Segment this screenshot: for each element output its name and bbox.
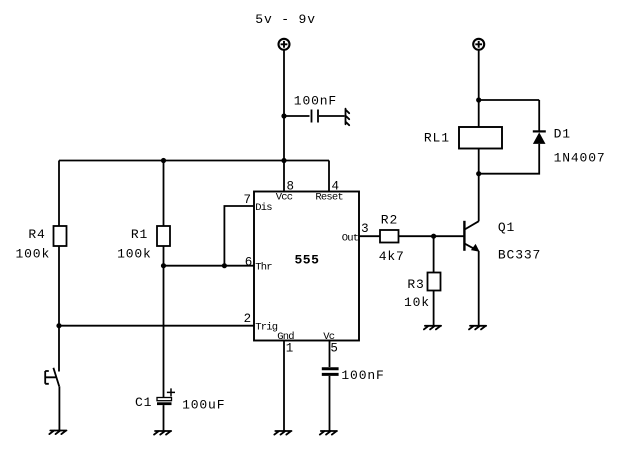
svg-text:8: 8 [287, 180, 295, 194]
svg-text:C1: C1 [135, 395, 152, 410]
svg-text:7: 7 [244, 193, 252, 207]
wire pin 5 to capacitor [329, 341, 331, 368]
op-amp/IC U1 555 body [254, 192, 359, 341]
resistor R3 [428, 273, 441, 291]
svg-text:5v - 9v: 5v - 9v [255, 12, 316, 27]
wire power vertical to pin 8 [283, 51, 285, 192]
node diode top junction [476, 97, 481, 102]
node rail / pin8 junction [281, 158, 286, 163]
svg-text:R2: R2 [381, 213, 398, 228]
polarity plus of C1 [167, 388, 175, 396]
svg-text:Thr: Thr [255, 262, 272, 274]
svg-text:D1: D1 [554, 127, 571, 142]
wire R2 to base [399, 235, 465, 237]
wire power to relay [478, 51, 480, 128]
wire capacitor to ground [319, 115, 345, 117]
svg-text:2: 2 [244, 312, 252, 326]
switch S1 push-button [45, 368, 59, 387]
wire emitter to ground [478, 251, 480, 326]
svg-text:RL1: RL1 [424, 131, 450, 146]
wire R1 bottom to C1 [163, 246, 165, 398]
svg-text:100k: 100k [16, 247, 51, 262]
ground below emitter [469, 326, 486, 330]
node base junction [431, 234, 436, 239]
diode D1 1N4007 [533, 131, 546, 144]
svg-text:555: 555 [295, 252, 320, 267]
wire relay to collector [478, 149, 480, 222]
wire pin 1 to ground [283, 341, 285, 432]
ground right-facing [346, 109, 350, 126]
wire R4 top lead [58, 161, 60, 227]
ground below R3 [424, 326, 441, 330]
node diode bottom junction [476, 171, 481, 176]
wire R3 to ground [433, 291, 435, 326]
ground below C1 [154, 431, 171, 435]
power terminal +V left [279, 39, 290, 50]
relay coil RL1 [459, 127, 502, 149]
svg-text:1N4007: 1N4007 [554, 151, 606, 166]
wire diode branch top [479, 100, 540, 131]
svg-text:100nF: 100nF [341, 368, 384, 383]
wire R4 bottom lead [58, 246, 60, 372]
node dis loop junction [222, 263, 227, 268]
wire pin 3 out [359, 235, 380, 237]
node R1 top junction [161, 158, 166, 163]
svg-text:4: 4 [332, 180, 340, 194]
svg-text:4k7: 4k7 [379, 249, 405, 264]
wire R3 top lead [433, 236, 435, 272]
svg-text:100nF: 100nF [294, 94, 337, 109]
svg-text:1: 1 [286, 341, 294, 355]
wire dis loop [224, 206, 254, 266]
resistor R2 [380, 230, 399, 243]
svg-text:R1: R1 [131, 227, 148, 242]
wire capacitor to ground [329, 376, 331, 431]
svg-text:100uF: 100uF [182, 398, 225, 413]
svg-text:R3: R3 [407, 277, 424, 292]
svg-text:10k: 10k [404, 295, 430, 310]
svg-text:R4: R4 [28, 227, 45, 242]
node thr junction at R1 [161, 263, 166, 268]
power terminal +V right [473, 39, 484, 50]
resistor R1 [157, 226, 170, 246]
wire thr horizontal [164, 265, 255, 267]
node cap junction [281, 113, 286, 118]
wire top rail [59, 160, 329, 162]
svg-text:BC337: BC337 [498, 248, 541, 263]
node trig junction [56, 323, 61, 328]
svg-text:100k: 100k [117, 247, 152, 262]
resistor R4 [54, 226, 67, 246]
ground below switch [49, 431, 66, 435]
capacitor C 100nF bottom [322, 369, 339, 375]
wire to capacitor 100nF [284, 115, 310, 117]
wire trig horizontal [59, 325, 254, 327]
transistor Q1 BC337 NPN [464, 221, 479, 252]
wire pin 4 drop [328, 161, 330, 192]
svg-text:Trig: Trig [255, 322, 278, 334]
wire R1 top lead [163, 161, 165, 227]
wire C1 to ground [163, 405, 165, 431]
ground below pin 5 capacitor [320, 431, 337, 435]
svg-text:3: 3 [361, 222, 369, 236]
svg-text:Dis: Dis [255, 202, 272, 214]
wire diode branch bottom [479, 144, 540, 174]
svg-text:Out: Out [342, 232, 359, 244]
svg-text:5: 5 [330, 341, 338, 355]
capacitor C 100nF top [312, 110, 319, 123]
ground below pin 1 [274, 431, 291, 435]
capacitor C1 100uF [157, 398, 172, 404]
svg-text:Reset: Reset [315, 192, 343, 204]
svg-text:6: 6 [245, 256, 253, 270]
svg-text:Q1: Q1 [498, 220, 515, 235]
wire switch to ground [58, 386, 60, 430]
